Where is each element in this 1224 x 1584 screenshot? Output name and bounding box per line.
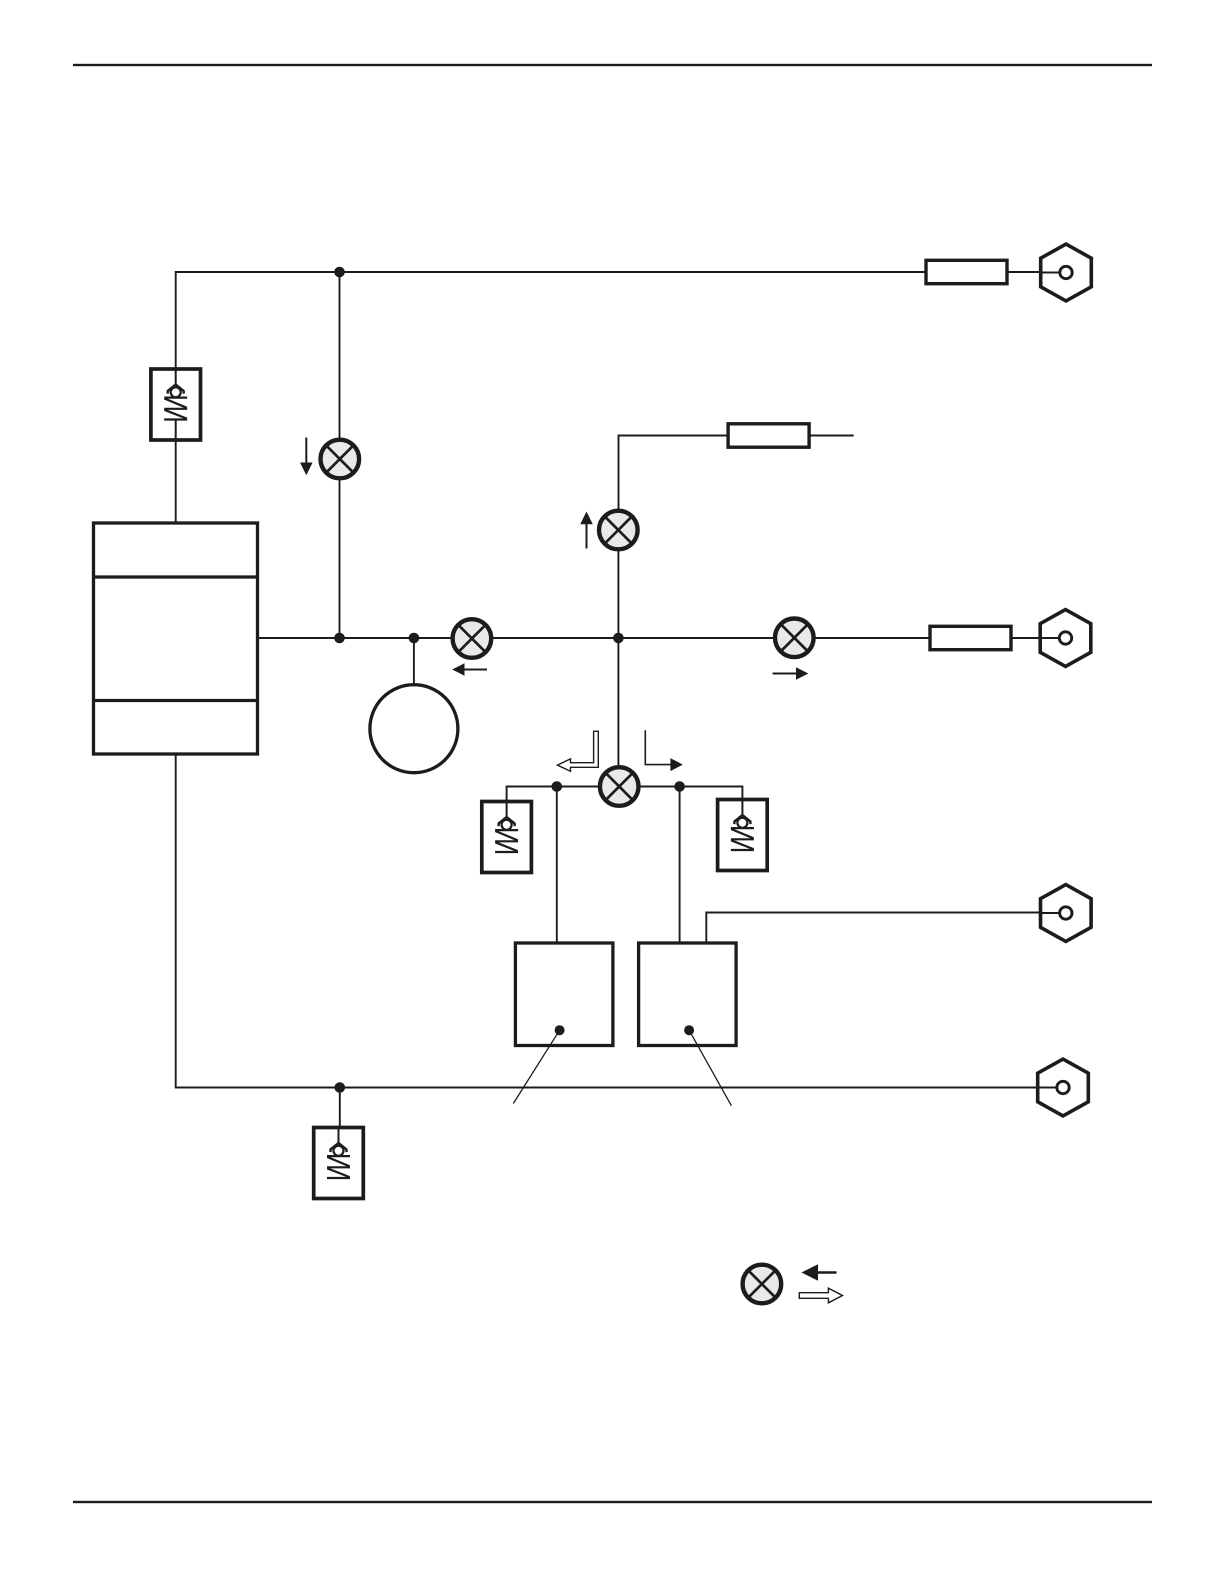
valve V1 bbox=[321, 440, 360, 479]
node callout dot A bbox=[555, 1025, 565, 1035]
wire top manifold line bbox=[176, 271, 926, 273]
check valve CV1 bbox=[151, 369, 201, 440]
wire gauge stub bbox=[413, 638, 415, 684]
arrow V3 flow right bbox=[773, 667, 809, 679]
check valve CV4 bbox=[314, 1128, 364, 1199]
wire stub to check valve CV4 bbox=[339, 1088, 341, 1129]
footer rule bbox=[73, 1501, 1152, 1503]
check valve CV2 bbox=[482, 802, 532, 873]
arrow V2 flow left bbox=[452, 663, 487, 675]
wire R3 to port P2 bbox=[1010, 637, 1061, 639]
wire V3 to restrictor R3 bbox=[816, 637, 932, 639]
header rule bbox=[73, 64, 1152, 66]
gauge G1 bbox=[370, 685, 458, 773]
restrictor R2 bbox=[728, 424, 809, 447]
wire CV1 to pump block bbox=[175, 440, 177, 523]
port P2 bbox=[1040, 610, 1091, 667]
wire V5 left branch bbox=[507, 787, 599, 803]
wire top line to port P1 bbox=[1007, 271, 1061, 273]
port P4 bbox=[1037, 1059, 1088, 1116]
wire riser top branch with corner bbox=[619, 436, 729, 509]
wire V4 down to V5 bbox=[617, 551, 619, 766]
restrictor R3 bbox=[930, 626, 1011, 649]
restrictor R1 bbox=[926, 260, 1007, 283]
node gauge tee bbox=[409, 633, 420, 644]
wire main pressure line bbox=[258, 637, 451, 639]
arrow V5 hollow elbow left bbox=[557, 731, 598, 771]
arrow V5 solid elbow right bbox=[645, 730, 683, 771]
wire V1 to main line bbox=[339, 479, 341, 639]
wire left drop to check valve CV1 bbox=[175, 271, 177, 370]
leader line from A bbox=[513, 1030, 559, 1103]
port P1 bbox=[1040, 244, 1091, 301]
check valve CV3 bbox=[718, 800, 768, 871]
wire drop to solenoid box B bbox=[679, 787, 681, 945]
solenoid box A bbox=[515, 943, 613, 1046]
wire bottom return line bbox=[176, 1087, 1058, 1088]
wire V5 right branch bbox=[640, 787, 742, 801]
valve V3 bbox=[775, 619, 814, 658]
leader line from B bbox=[689, 1030, 731, 1106]
wire return drop from pump block bbox=[175, 754, 177, 1088]
valve V2 bbox=[453, 619, 492, 658]
wire main line V2 to V3 bbox=[493, 637, 773, 639]
pump block M1 bbox=[94, 523, 258, 754]
node top-left junction bbox=[334, 267, 345, 278]
wire drop to solenoid box A bbox=[556, 787, 558, 945]
legend hollow arrow right bbox=[799, 1288, 842, 1303]
valve V4 bbox=[599, 511, 638, 550]
port P3 bbox=[1040, 885, 1091, 942]
legend valve symbol bbox=[743, 1265, 782, 1304]
arrow V1 flow down bbox=[300, 438, 313, 476]
node right branch tee bbox=[674, 781, 685, 792]
solenoid box B bbox=[639, 943, 737, 1046]
node left branch tee bbox=[552, 781, 563, 792]
arrow V4 flow up bbox=[580, 512, 593, 549]
wire port P3 line with corner into box B bbox=[706, 913, 1061, 944]
node callout dot B bbox=[684, 1025, 694, 1035]
node bottom junction bbox=[335, 1082, 346, 1093]
legend solid arrow left bbox=[802, 1264, 837, 1281]
valve V5 tee valve bbox=[600, 767, 639, 806]
wire R2 stub right bbox=[809, 435, 854, 437]
node main line at center drop bbox=[334, 633, 345, 644]
node riser junction bbox=[613, 633, 624, 644]
wire center drop from top line bbox=[339, 272, 341, 439]
